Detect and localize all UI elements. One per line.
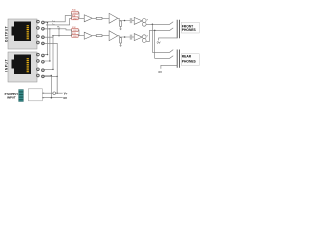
node — [154, 30, 156, 32]
svg-text:L-: L- — [53, 24, 55, 26]
label P SUPPLY INPUT — [5, 92, 19, 100]
resistor R8 vertical — [120, 37, 122, 45]
wire bus v2 — [44, 28, 50, 61]
resistor R1 — [72, 10, 78, 15]
capacitor C3 — [130, 35, 132, 40]
wire — [92, 35, 96, 37]
wire to rear ring — [155, 30, 174, 58]
wire left join L — [71, 13, 73, 19]
jack FRONT PHONES — [159, 20, 180, 41]
connector J1 pins 1-8 — [37, 20, 45, 45]
jack REAR PHONES — [161, 50, 180, 69]
wire bus v3 — [44, 36, 53, 70]
svg-text:OUTPUT: OUTPUT — [4, 26, 8, 42]
node taps — [47, 22, 48, 23]
wire bus v1 — [44, 22, 47, 55]
wire front tip — [146, 22, 173, 25]
wire — [102, 35, 109, 37]
wire — [92, 17, 96, 19]
connector supply body — [28, 89, 42, 101]
wire L input A — [44, 16, 71, 22]
op-amp A3 — [84, 32, 92, 39]
capacitor C4 electrolytic — [142, 35, 148, 43]
connector supply teal — [19, 90, 24, 102]
capacitor C1 — [130, 18, 132, 23]
resistor R7 vertical — [120, 21, 122, 29]
buffer B2 — [134, 34, 142, 41]
label FRONT PHONES — [181, 22, 199, 33]
connector J2 pins 1-8 — [37, 53, 45, 78]
svg-text:0V: 0V — [157, 40, 161, 44]
node — [152, 24, 154, 26]
ground — [119, 45, 121, 47]
connector J2 INPUT body — [4, 52, 37, 82]
op-amp A1 — [84, 15, 92, 22]
wire bus v4 — [44, 43, 57, 93]
ground — [119, 29, 121, 31]
wire to rear tip — [152, 24, 173, 52]
terminal circle — [53, 92, 56, 95]
wire R input A — [53, 35, 72, 37]
svg-text:PHONES: PHONES — [182, 28, 197, 32]
node — [51, 97, 53, 99]
connector J1 OUTPUT body — [4, 19, 37, 49]
svg-text:V+: V+ — [64, 92, 68, 96]
wire — [132, 36, 135, 38]
node — [124, 20, 126, 22]
resistor R4 — [72, 33, 78, 38]
wire join R — [78, 30, 84, 36]
svg-text:PHONES: PHONES — [182, 60, 197, 64]
wire join L — [78, 13, 84, 19]
wire L out — [118, 18, 130, 20]
wire 0V rail — [42, 97, 62, 99]
wire R input B — [44, 29, 71, 30]
resistor R3 — [72, 27, 78, 32]
op-amp A4 — [109, 31, 118, 41]
svg-text:INPUT: INPUT — [4, 59, 8, 72]
wire — [132, 20, 135, 22]
wire bus v5 — [44, 76, 51, 98]
wire V+ rail — [42, 76, 62, 93]
buffer B1 — [134, 17, 142, 24]
node — [124, 36, 126, 38]
label REAR PHONES — [181, 54, 199, 66]
resistor R2 — [72, 16, 78, 21]
wire L input B — [46, 19, 72, 25]
resistor R5 — [96, 17, 102, 19]
svg-text:0V: 0V — [158, 70, 162, 74]
wire — [102, 17, 109, 19]
svg-text:0V: 0V — [63, 96, 67, 100]
svg-text:REAR: REAR — [182, 55, 192, 59]
capacitor C2 electrolytic — [142, 19, 148, 27]
op-amp A2 — [109, 13, 118, 23]
wire R out — [118, 36, 130, 37]
wire left join R — [71, 30, 73, 36]
wire front ring — [146, 28, 173, 42]
resistor R6 — [96, 35, 102, 37]
svg-text:INPUT: INPUT — [7, 95, 16, 99]
